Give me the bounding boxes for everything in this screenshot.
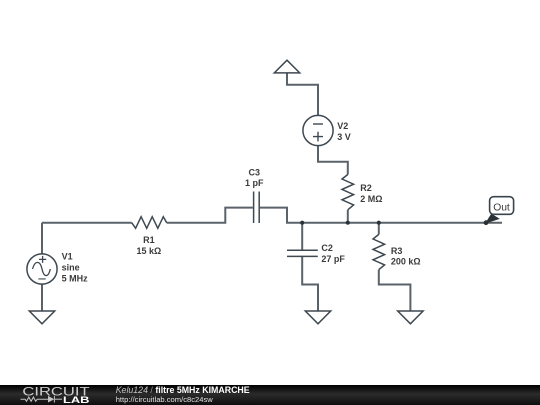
svg-text:http://circuitlab.com/c8c24sw: http://circuitlab.com/c8c24sw bbox=[116, 395, 214, 404]
svg-text:15 kΩ: 15 kΩ bbox=[137, 246, 162, 256]
svg-text:Out: Out bbox=[493, 202, 510, 213]
svg-text:1 pF: 1 pF bbox=[245, 178, 264, 188]
svg-text:Kelu124 / filtre 5MHz KIMARCHE: Kelu124 / filtre 5MHz KIMARCHE bbox=[116, 385, 250, 395]
svg-text:V2: V2 bbox=[337, 121, 348, 131]
svg-text:R2: R2 bbox=[360, 183, 372, 193]
svg-text:R1: R1 bbox=[143, 235, 155, 245]
svg-text:27 pF: 27 pF bbox=[321, 254, 345, 264]
svg-text:R3: R3 bbox=[391, 246, 403, 256]
svg-text:5 MHz: 5 MHz bbox=[62, 274, 89, 284]
svg-text:sine: sine bbox=[62, 263, 80, 273]
svg-text:V1: V1 bbox=[62, 252, 73, 262]
svg-text:200 kΩ: 200 kΩ bbox=[391, 257, 421, 267]
svg-text:C3: C3 bbox=[249, 167, 261, 177]
svg-text:2 MΩ: 2 MΩ bbox=[360, 194, 382, 204]
svg-text:LAB: LAB bbox=[63, 394, 90, 405]
svg-text:3 V: 3 V bbox=[337, 132, 351, 142]
svg-text:C2: C2 bbox=[321, 243, 333, 253]
